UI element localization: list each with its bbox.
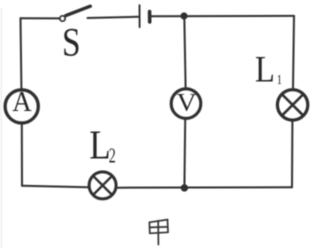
battery short plate xyxy=(148,12,152,22)
wire switch to battery xyxy=(88,17,139,18)
wire battery to top-right corner xyxy=(152,15,295,17)
switch S blade xyxy=(66,6,91,15)
wire left vertical (top segment to ammeter) xyxy=(20,18,23,88)
wire middle vertical (voltmeter to bottom) xyxy=(183,120,186,188)
lamp L2 circle xyxy=(89,172,116,199)
svg-text:2: 2 xyxy=(109,144,116,167)
svg-text:1: 1 xyxy=(277,72,282,88)
wire bottom (lamp L2 to right corner) xyxy=(118,186,293,188)
caption 甲 (drawn) xyxy=(149,220,168,245)
svg-text:S: S xyxy=(62,20,81,65)
node junction dot top xyxy=(180,12,187,19)
wire bottom (left corner to lamp L2) xyxy=(22,186,88,188)
faint scan edge line xyxy=(0,8,2,248)
ammeter U1 circle xyxy=(5,90,38,123)
lamp L1 cross xyxy=(282,95,303,116)
lamp L2 cross xyxy=(93,176,111,194)
svg-text:L: L xyxy=(89,123,110,168)
wire right vertical (top corner to lamp L1) xyxy=(293,16,294,89)
battery long plate xyxy=(139,5,141,27)
wire middle vertical (dot to voltmeter) xyxy=(184,16,185,87)
wire right vertical (lamp L1 to bottom corner) xyxy=(291,122,293,188)
svg-text:A: A xyxy=(12,86,32,118)
lamp L1 circle xyxy=(277,90,307,120)
node junction dot bottom xyxy=(181,184,188,191)
wire left vertical (ammeter to bottom corner) xyxy=(21,124,23,185)
svg-text:L: L xyxy=(255,50,275,90)
svg-text:V: V xyxy=(177,89,197,117)
switch S pivot xyxy=(60,16,65,21)
voltmeter U2 circle xyxy=(171,89,201,119)
wire top-left horizontal xyxy=(21,17,60,19)
